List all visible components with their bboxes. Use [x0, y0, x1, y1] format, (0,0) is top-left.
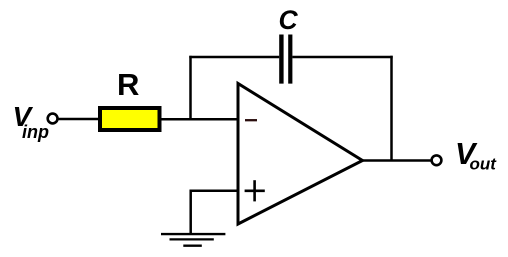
svg-text:inp: inp: [22, 122, 49, 142]
output terminal circle: [432, 155, 442, 165]
inverting input minus sign: [245, 119, 257, 121]
wire resistor to op-amp inverting input: [162, 118, 239, 121]
wire feedback right vertical: [390, 56, 393, 161]
non-inverting input plus sign: [245, 180, 265, 201]
node Vinp label: [13, 101, 50, 142]
svg-text:out: out: [470, 155, 498, 174]
ground symbol: [161, 234, 225, 246]
resistor R: [100, 108, 160, 130]
svg-text:C: C: [279, 5, 299, 35]
op-amp U1 triangle: [238, 84, 363, 225]
wire non-inverting input: [190, 190, 239, 193]
wire junction to feedback (vertical): [189, 56, 192, 119]
svg-text:R: R: [117, 67, 139, 102]
output wire: [361, 159, 432, 162]
wire feedback top left segment: [189, 56, 279, 59]
node Vout label: [455, 137, 497, 174]
wire terminal to resistor: [58, 118, 99, 121]
ground stem wire: [189, 190, 192, 234]
input terminal circle: [48, 114, 58, 124]
wire feedback top right segment: [292, 56, 392, 59]
capacitor C plates: [281, 35, 290, 84]
